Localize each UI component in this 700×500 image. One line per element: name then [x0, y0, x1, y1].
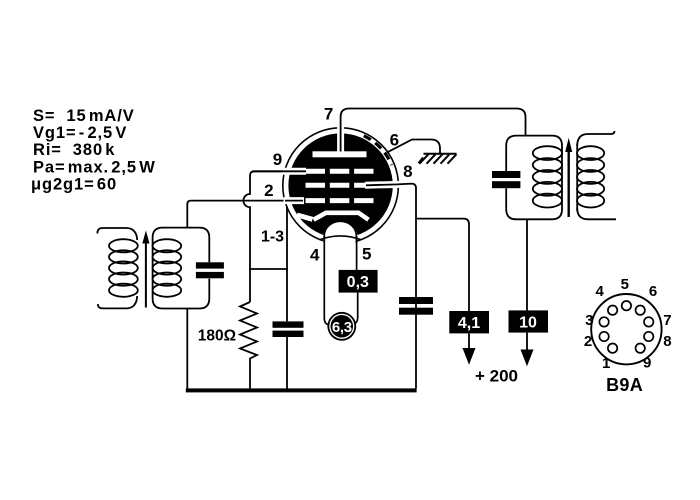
anode current label 10 mA — [509, 310, 549, 332]
wire anode pin 7 to output tank — [341, 109, 526, 152]
svg-text:B9A: B9A — [606, 375, 643, 395]
input tuning capacitor C1 — [196, 262, 224, 278]
arrow anode supply — [526, 333, 528, 351]
white halo: pin 9 lead — [283, 168, 307, 175]
wire heater pin 5 — [356, 236, 358, 270]
tube parameters text block — [31, 107, 156, 194]
wire branch g2 to 4,1 arrow — [416, 219, 469, 311]
svg-text:3: 3 — [585, 312, 593, 329]
cathode (white chevron) — [314, 213, 369, 220]
svg-text:180Ω: 180Ω — [198, 328, 236, 345]
anode plate (white bar) — [313, 151, 367, 157]
svg-text:S= 15 mA/V: S= 15 mA/V — [33, 107, 135, 125]
resistor R1 180 ohm cathode bias — [240, 302, 257, 389]
svg-text:8: 8 — [663, 333, 671, 350]
output transformer secondary coil — [577, 131, 616, 219]
input transformer coupling arrow — [142, 231, 149, 308]
svg-text:6: 6 — [649, 283, 657, 300]
internal shield dashed rim arc — [364, 136, 392, 165]
svg-text:1-3: 1-3 — [261, 229, 284, 246]
svg-text:Ri= 380 k: Ri= 380 k — [33, 141, 115, 159]
white halo: pin 2 lead — [284, 197, 305, 204]
svg-text:5: 5 — [621, 276, 629, 293]
wire g3 pin 9 inside halo — [252, 170, 306, 172]
grid g1 row — [306, 198, 374, 203]
capacitor C2 cathode bypass — [273, 321, 304, 327]
white halo: pin 8 lead — [365, 181, 400, 189]
svg-text:7: 7 — [663, 312, 671, 329]
wire rung joining resistor and capacitor branches — [249, 268, 288, 270]
chassis ground symbol — [419, 154, 457, 164]
svg-text:2: 2 — [584, 333, 592, 350]
svg-text:9: 9 — [643, 355, 651, 372]
svg-text:4,1: 4,1 — [458, 315, 480, 332]
capacitor C3 screen decoupling — [399, 297, 433, 304]
output transformer coupling arrow — [568, 151, 570, 218]
wire g1 (pin 2) from input tank to tube — [187, 201, 303, 228]
wire cathode (pins 1-3) down to bypass capacitor — [286, 207, 288, 322]
wire pin 6 to chassis — [387, 140, 440, 154]
grid g3 row — [306, 169, 374, 174]
input transformer T1 primary coil — [97, 228, 137, 308]
wire g1 pin 2 inside halo — [285, 200, 303, 202]
ground bus (thick) — [186, 388, 417, 392]
wire g3/shield (pin 9) with hop over g1 wire — [243, 171, 306, 302]
white halo: anode lead pin 7 — [337, 124, 344, 152]
heater dome (white arch at tube bottom) — [323, 221, 357, 246]
B9A pin numbers — [584, 276, 672, 372]
envelope arc re-stroke over dome — [320, 236, 361, 240]
tube V1 pentode envelope — [283, 128, 399, 244]
wire anode supply through 10 label — [526, 219, 528, 310]
svg-text:Vg1= - 2,5 V: Vg1= - 2,5 V — [33, 124, 127, 142]
wire screen g2 pin 8 to decoupling — [366, 184, 416, 389]
wire input tank bottom to ground bus — [186, 309, 188, 389]
white halo: cathode lead — [297, 215, 313, 219]
svg-text:4: 4 — [310, 246, 320, 265]
heater voltage label 6,3 — [327, 312, 356, 341]
B9A base outline — [591, 294, 661, 364]
svg-text:+ 200: + 200 — [475, 367, 518, 386]
svg-text:10: 10 — [519, 314, 537, 331]
input tuned circuit frame L2 — [153, 228, 210, 309]
svg-text:8: 8 — [403, 162, 412, 181]
svg-text:7: 7 — [324, 105, 333, 124]
svg-text:9: 9 — [273, 150, 282, 169]
heater current label 0,3 — [339, 270, 378, 293]
B9A pin holes — [599, 301, 653, 353]
svg-text:Pa= max. 2,5 W: Pa= max. 2,5 W — [33, 159, 156, 177]
screen current label 4,1 mA — [449, 311, 489, 333]
svg-text:4: 4 — [596, 283, 605, 300]
svg-text:5: 5 — [362, 245, 371, 264]
wire heater pin 4 — [324, 236, 328, 325]
svg-text:0,3: 0,3 — [347, 274, 369, 291]
output tuning capacitor C4 — [492, 171, 520, 178]
output tuned circuit frame L3 — [506, 136, 562, 220]
svg-text:6,3: 6,3 — [332, 319, 352, 336]
svg-text:μg2g1= 60: μg2g1= 60 — [31, 176, 117, 194]
svg-text:1: 1 — [602, 355, 610, 372]
svg-text:6: 6 — [390, 130, 399, 149]
svg-text:2: 2 — [264, 181, 273, 200]
grid g2 row — [306, 183, 374, 188]
arrow screen supply — [468, 334, 470, 351]
